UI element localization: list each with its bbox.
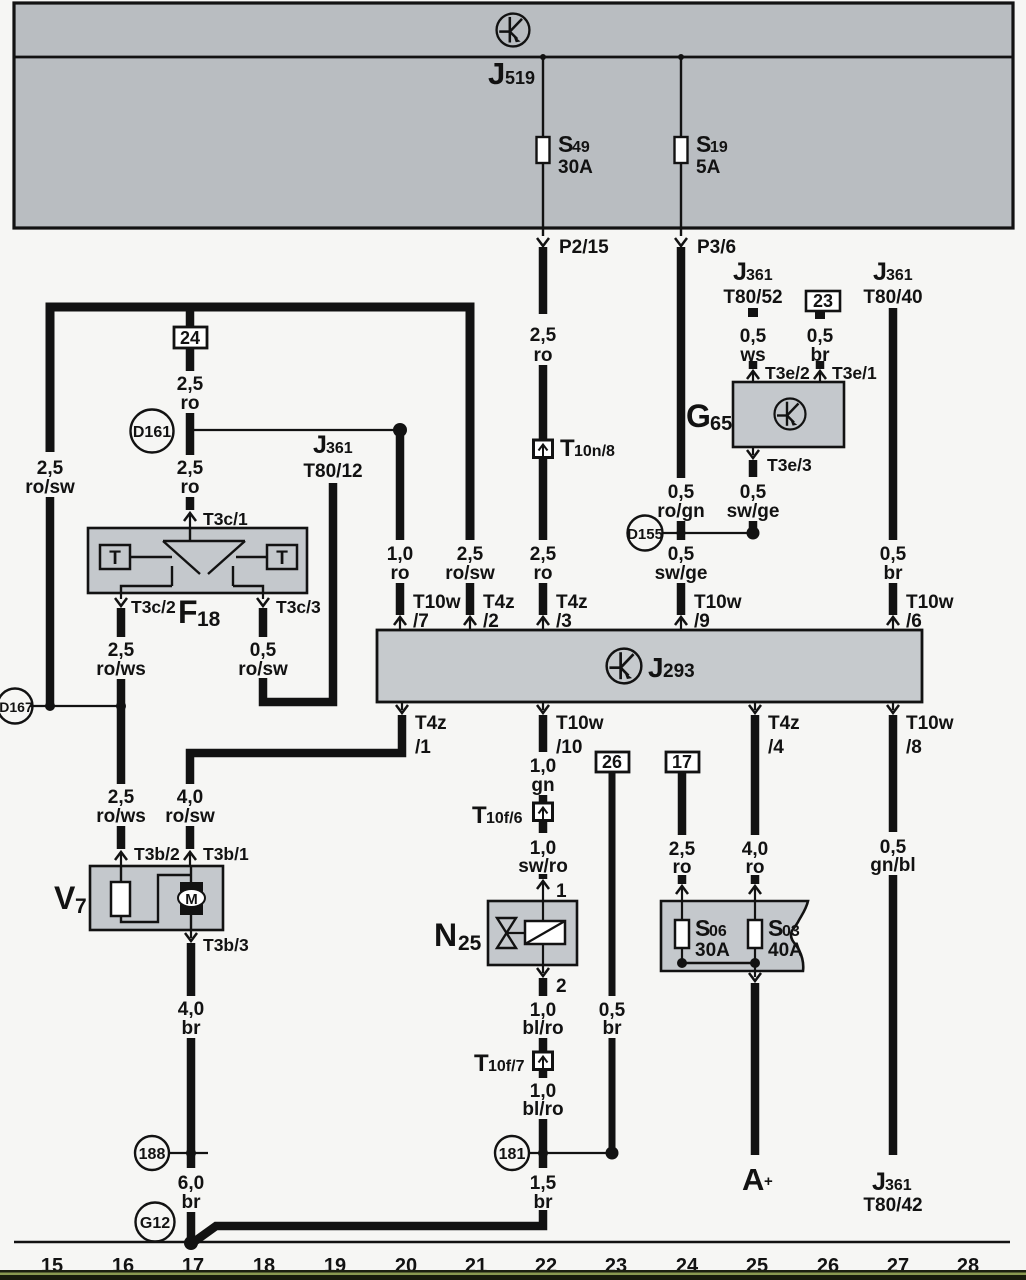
- svg-text:J: J: [733, 258, 747, 286]
- svg-text:10f/7: 10f/7: [488, 1058, 525, 1075]
- wire 0,5 br from 26: [609, 772, 616, 996]
- svg-text:br: br: [182, 1018, 202, 1039]
- svg-text:J: J: [313, 431, 327, 459]
- svg-text:T3b/1: T3b/1: [203, 844, 249, 864]
- svg-text:T: T: [472, 802, 487, 829]
- svg-text:V: V: [54, 880, 76, 916]
- F18 funnel symbol: [189, 528, 191, 541]
- wire 1,0 gn T10w/10 to N25: [539, 715, 548, 752]
- wire 2,5 ro from 17 to S06: [678, 772, 687, 835]
- svg-text:ro/ws: ro/ws: [96, 659, 146, 680]
- svg-text:T3c/1: T3c/1: [203, 509, 248, 529]
- svg-text:br: br: [182, 1192, 202, 1213]
- V7 internal wiring: [121, 875, 191, 922]
- wire to battery A+: [751, 983, 760, 1155]
- splice D161: [131, 410, 174, 453]
- svg-text:T80/42: T80/42: [863, 1195, 922, 1216]
- svg-text:ro: ro: [181, 393, 200, 414]
- svg-text:1,0: 1,0: [387, 544, 413, 565]
- svg-text:T10w: T10w: [906, 592, 954, 613]
- svg-text:/8: /8: [906, 737, 922, 758]
- svg-text:P3/6: P3/6: [697, 237, 736, 258]
- wire fuse S19 to band edge: [680, 163, 682, 236]
- svg-text:6,0: 6,0: [178, 1173, 204, 1194]
- svg-text:ro/gn: ro/gn: [657, 501, 705, 522]
- svg-text:T3b/3: T3b/3: [203, 935, 249, 955]
- svg-text:ro/sw: ro/sw: [25, 477, 75, 498]
- terminal P2/15: [537, 238, 549, 246]
- svg-text:30A: 30A: [695, 940, 730, 961]
- svg-text:J: J: [648, 652, 664, 683]
- wire left branch lower part: [46, 497, 55, 706]
- wire D161 junction to 1,0 ro branch: [190, 429, 400, 431]
- svg-text:/1: /1: [415, 737, 431, 758]
- inline connector T10n/8: [534, 440, 553, 458]
- wire T10n/8 to J293: [539, 458, 548, 541]
- pin T3e/1 into G65: [816, 361, 825, 369]
- N25 valve symbol: [497, 918, 516, 933]
- F18 internal links: [130, 556, 172, 558]
- svg-text:4,0: 4,0: [177, 787, 203, 808]
- svg-text:2,5: 2,5: [108, 787, 135, 808]
- svg-text:2,5: 2,5: [457, 544, 484, 565]
- svg-text:19: 19: [710, 139, 728, 156]
- wire 24 to D161: [186, 348, 195, 371]
- control unit J519 band: [14, 3, 1013, 228]
- svg-text:J: J: [872, 1168, 886, 1196]
- node at bus for S49 wire: [540, 54, 546, 60]
- sender G65: [733, 382, 844, 447]
- pin T3c/2 out of F18: [120, 593, 122, 599]
- svg-text:D167: D167: [0, 699, 33, 715]
- svg-text:F: F: [178, 594, 198, 630]
- control unit J293: [377, 630, 922, 702]
- svg-text:bl/ro: bl/ro: [522, 1018, 563, 1039]
- wire 0,5 br T80/40 to J293: [889, 308, 898, 540]
- svg-text:23: 23: [813, 291, 833, 311]
- svg-text:T80/12: T80/12: [303, 461, 362, 482]
- wire T80/12 down to F18 T3c/3: [263, 483, 333, 702]
- inline connector T10f/7: [534, 1052, 553, 1070]
- svg-text:0,5: 0,5: [668, 544, 695, 565]
- svg-text:1,0: 1,0: [530, 756, 556, 777]
- pin T3c/3 out of F18: [262, 593, 264, 599]
- svg-text:0,5: 0,5: [807, 326, 834, 347]
- svg-text:1,5: 1,5: [530, 1173, 557, 1194]
- wire bus to fuse S49: [542, 57, 544, 137]
- svg-text:ro: ro: [534, 563, 553, 584]
- pin out of fuse holder: [754, 963, 756, 977]
- baseline current track rail: [14, 1241, 1010, 1244]
- svg-text:06: 06: [709, 923, 727, 940]
- svg-text:gn/bl: gn/bl: [870, 855, 915, 876]
- fuse S03 40A: [754, 901, 756, 920]
- pin T10w/6 into J293: [887, 617, 899, 625]
- pin T3b/2 into V7: [115, 852, 127, 860]
- wire 4,0 ro from T4z/4 to S03: [751, 715, 760, 835]
- svg-text:gn: gn: [531, 775, 554, 796]
- wire D155 junction to G65 wire: [662, 532, 753, 534]
- svg-text:bl/ro: bl/ro: [522, 1099, 563, 1120]
- svg-text:10f/6: 10f/6: [486, 810, 523, 827]
- valve N25: [488, 901, 577, 965]
- pin T3c/1 into F18: [184, 513, 196, 521]
- svg-text:+: +: [764, 1173, 773, 1190]
- svg-text:65: 65: [710, 413, 732, 435]
- svg-text:N: N: [434, 917, 457, 953]
- svg-text:0,5: 0,5: [740, 326, 767, 347]
- svg-text:1: 1: [556, 881, 567, 902]
- electronics symbol in J519: [497, 14, 530, 47]
- svg-text:2,5: 2,5: [108, 640, 135, 661]
- pin T3b/1 into V7: [184, 852, 196, 860]
- terminal box 17: [666, 752, 699, 772]
- svg-text:18: 18: [197, 608, 221, 631]
- svg-text:25: 25: [458, 932, 482, 955]
- svg-text:A: A: [742, 1162, 764, 1197]
- node D161 junction: [186, 426, 194, 434]
- bottom green strip: [0, 1270, 1026, 1273]
- wire D167 link: [30, 705, 121, 707]
- ground bus wire: [191, 1210, 543, 1244]
- ground point G12: [136, 1203, 175, 1242]
- svg-text:T10w: T10w: [906, 713, 954, 734]
- svg-text:T80/40: T80/40: [863, 287, 922, 308]
- V7 motor: [190, 866, 192, 882]
- terminal box 24: [186, 309, 195, 327]
- wire 4,0 br to ground: [187, 943, 196, 996]
- svg-text:ro: ro: [534, 345, 553, 366]
- pin T4z/3 into J293: [537, 617, 549, 625]
- fuse holder box S06/S03: [661, 901, 808, 971]
- inline connector T10f/6: [534, 803, 553, 821]
- wire 181 junction to 0,5 br wire: [529, 1152, 612, 1154]
- svg-text:361: 361: [885, 1177, 912, 1194]
- F18 left T contact: [100, 545, 130, 569]
- svg-text:361: 361: [886, 267, 913, 284]
- wire bus to fuse S19: [680, 57, 682, 137]
- pin 1 into N25: [537, 881, 549, 889]
- svg-text:2,5: 2,5: [530, 544, 557, 565]
- pin T4z/2 into J293: [464, 617, 476, 625]
- wire G65 to D155 junction: [749, 521, 758, 531]
- svg-text:40A: 40A: [768, 940, 803, 961]
- svg-text:ro: ro: [181, 477, 200, 498]
- pin T10w/10 out of J293: [542, 702, 544, 710]
- svg-text:361: 361: [746, 267, 773, 284]
- svg-text:4,0: 4,0: [178, 999, 204, 1020]
- N25 coil: [525, 921, 565, 944]
- pin 2 out of N25: [542, 965, 544, 973]
- wire 0,5 ro/sw from F18 T3c/3: [259, 608, 268, 637]
- svg-text:2,5: 2,5: [530, 325, 557, 346]
- terminal box 23: [806, 291, 840, 311]
- inner bus line of J519 band: [14, 56, 1013, 59]
- svg-text:03: 03: [782, 923, 800, 940]
- wire 2,5 top feed loop: [50, 307, 470, 540]
- pin T3e/2 into G65: [749, 361, 758, 369]
- terminal P3/6: [675, 238, 687, 246]
- wire stub T80/52: [748, 308, 758, 317]
- wire 4,0 ro/sw T4z/1 to V7: [190, 715, 402, 784]
- svg-text:br: br: [884, 563, 904, 584]
- svg-text:2,5: 2,5: [177, 458, 204, 479]
- svg-text:T: T: [276, 548, 288, 569]
- svg-text:J: J: [873, 258, 887, 286]
- wire 1,0 bl/ro from N25: [539, 978, 548, 996]
- svg-text:ro/sw: ro/sw: [445, 563, 495, 584]
- svg-text:T10w: T10w: [694, 592, 742, 613]
- svg-text:sw/ge: sw/ge: [727, 501, 780, 522]
- svg-text:G: G: [686, 398, 711, 434]
- wire 2,5 ro from P2/15 down: [539, 247, 548, 314]
- pin T3b/3 out of V7: [190, 930, 192, 938]
- splice 188: [135, 1136, 169, 1170]
- svg-text:T3e/1: T3e/1: [832, 363, 877, 383]
- ground node: [184, 1236, 198, 1250]
- node 181 junction: [538, 1148, 548, 1158]
- pin T10w/8 out of J293: [892, 702, 894, 710]
- node 188 junction: [186, 1148, 196, 1158]
- svg-text:361: 361: [326, 440, 353, 457]
- svg-text:10n/8: 10n/8: [574, 443, 615, 460]
- svg-text:0,5: 0,5: [250, 640, 277, 661]
- thermal fuse F18: [88, 528, 307, 593]
- wire 1,0 bl/ro lower: [539, 1070, 548, 1079]
- svg-text:188: 188: [139, 1146, 166, 1163]
- terminal box 26: [596, 752, 629, 772]
- node at bus for S19 wire: [678, 54, 684, 60]
- svg-text:ro: ro: [391, 563, 410, 584]
- svg-text:2,5: 2,5: [177, 374, 204, 395]
- pin T10w/7 into J293: [394, 617, 406, 625]
- svg-text:0,5: 0,5: [880, 544, 907, 565]
- svg-text:30A: 30A: [558, 157, 593, 178]
- svg-text:P2/15: P2/15: [559, 237, 609, 258]
- svg-text:T3b/2: T3b/2: [134, 844, 180, 864]
- node at D167 line: [116, 701, 126, 711]
- wire 1,0 sw/ro to N25: [539, 821, 548, 834]
- svg-text:T: T: [474, 1050, 489, 1077]
- svg-text:2,5: 2,5: [37, 458, 64, 479]
- wire 1,0 ro branch down: [396, 430, 405, 540]
- svg-text:D155: D155: [627, 526, 663, 543]
- svg-text:T3c/3: T3c/3: [276, 597, 321, 617]
- svg-text:24: 24: [180, 328, 200, 348]
- svg-text:293: 293: [663, 661, 695, 682]
- svg-text:ro/sw: ro/sw: [238, 659, 288, 680]
- svg-text:T10w: T10w: [556, 713, 604, 734]
- pin T4z/4 out of J293: [754, 702, 756, 710]
- svg-text:/10: /10: [556, 737, 582, 758]
- svg-text:0,5: 0,5: [740, 482, 767, 503]
- wire 0,5 from P3/6 down: [677, 247, 686, 478]
- svg-text:/4: /4: [768, 737, 784, 758]
- fuse link bus: [682, 962, 755, 965]
- svg-text:T10w: T10w: [413, 592, 461, 613]
- node left feed join: [45, 701, 55, 711]
- svg-text:T4z: T4z: [556, 592, 588, 613]
- svg-text:ro/ws: ro/ws: [96, 806, 146, 827]
- svg-text:ro: ro: [673, 857, 692, 878]
- svg-text:T3e/2: T3e/2: [765, 363, 810, 383]
- svg-text:5A: 5A: [696, 157, 721, 178]
- svg-text:26: 26: [602, 752, 622, 772]
- svg-text:sw/ge: sw/ge: [655, 563, 708, 584]
- pin T10w/9 into J293: [675, 617, 687, 625]
- svg-text:M: M: [185, 891, 198, 908]
- svg-text:49: 49: [572, 139, 590, 156]
- wire fuse S49 to band edge: [542, 163, 544, 236]
- svg-text:T80/52: T80/52: [723, 287, 782, 308]
- svg-text:T: T: [109, 548, 121, 569]
- wire 2,5 ro/ws from F18: [117, 608, 126, 637]
- svg-text:G12: G12: [140, 1215, 170, 1232]
- svg-text:J: J: [488, 56, 505, 91]
- svg-text:br: br: [534, 1192, 554, 1213]
- svg-text:sw/ro: sw/ro: [518, 856, 568, 877]
- blower motor V7: [90, 866, 223, 930]
- splice D155: [628, 516, 663, 551]
- pin T3e/3 out of G65: [752, 447, 754, 455]
- svg-text:D161: D161: [133, 424, 171, 441]
- splice 181: [495, 1136, 529, 1170]
- svg-text:ro/sw: ro/sw: [165, 806, 215, 827]
- pin T4z/1 out of J293: [401, 702, 403, 710]
- svg-text:T4z: T4z: [483, 592, 515, 613]
- svg-text:br: br: [603, 1018, 623, 1039]
- svg-text:T4z: T4z: [768, 713, 800, 734]
- splice D167: [0, 689, 33, 724]
- F18 right T contact: [267, 545, 297, 569]
- fuse S49: [537, 137, 550, 163]
- svg-text:ro: ro: [746, 857, 765, 878]
- fuse S06 30A: [681, 901, 683, 920]
- node D155 junction: [677, 529, 686, 538]
- svg-text:17: 17: [672, 752, 692, 772]
- svg-text:7: 7: [75, 895, 87, 918]
- svg-text:T3e/3: T3e/3: [767, 455, 812, 475]
- svg-text:2: 2: [556, 976, 567, 997]
- svg-text:519: 519: [505, 68, 535, 88]
- wire 0,5 gn/bl T10w/8 to T80/42: [889, 715, 898, 832]
- svg-text:T3c/2: T3c/2: [131, 597, 176, 617]
- V7 resistor element: [120, 866, 122, 882]
- fuse S19: [675, 137, 688, 163]
- svg-text:181: 181: [499, 1146, 526, 1163]
- svg-text:0,5: 0,5: [668, 482, 695, 503]
- svg-text:T4z: T4z: [415, 713, 447, 734]
- svg-text:T: T: [560, 435, 575, 462]
